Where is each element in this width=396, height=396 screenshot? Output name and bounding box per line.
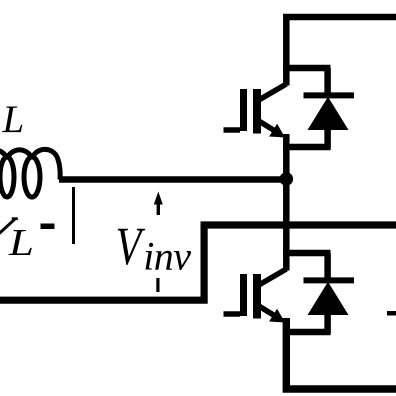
wire: top rail to right edge xyxy=(286,17,396,86)
svg-text:L: L xyxy=(8,221,34,263)
node A (midpoint junction dot) xyxy=(280,172,294,186)
svg-text:inv: inv xyxy=(143,234,191,279)
label V_L xyxy=(0,219,18,236)
minus sign (cropped label at right edge) xyxy=(387,311,396,316)
dash (V_inv -) xyxy=(156,278,159,292)
wire: output step (node side to right edge, down to bottom-left wire) xyxy=(0,225,396,300)
tick bar (V_L) xyxy=(72,187,75,244)
inductor L (coil) xyxy=(0,149,60,197)
wire: vertical through node xyxy=(283,134,290,271)
wire: emitter of Q2 to bottom-right edge xyxy=(286,318,396,389)
svg-text:L: L xyxy=(2,98,25,141)
transistor Q1 (upper IGBT) xyxy=(224,68,331,147)
wire: inductor to node xyxy=(59,176,286,183)
transistor Q2 (lower IGBT) xyxy=(224,253,331,332)
svg-text:V: V xyxy=(116,217,146,276)
diode D1 (upper freewheeling diode) xyxy=(304,68,355,149)
arrow (V_inv +) xyxy=(154,192,163,216)
minus sign (V_L) xyxy=(41,224,55,230)
diode D2 (lower freewheeling diode) xyxy=(304,253,355,334)
